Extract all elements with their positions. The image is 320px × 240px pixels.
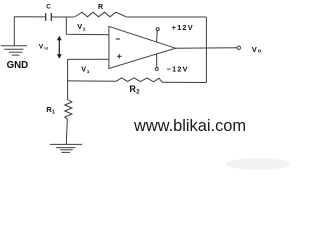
svg-text:+12V: +12V: [172, 23, 194, 32]
svg-text:GND: GND: [7, 60, 29, 71]
svg-text:V: V: [77, 22, 82, 31]
svg-text:R: R: [98, 4, 103, 11]
svg-text:V: V: [81, 65, 86, 74]
svg-text:o: o: [258, 48, 262, 54]
svg-text:C: C: [46, 3, 51, 10]
svg-text:1: 1: [87, 69, 90, 75]
svg-text:−12V: −12V: [167, 64, 189, 73]
svg-text:1: 1: [52, 109, 55, 115]
svg-text:id: id: [44, 46, 48, 51]
svg-text:2: 2: [136, 90, 140, 96]
svg-text:V: V: [39, 44, 44, 51]
svg-text:2: 2: [83, 26, 86, 32]
